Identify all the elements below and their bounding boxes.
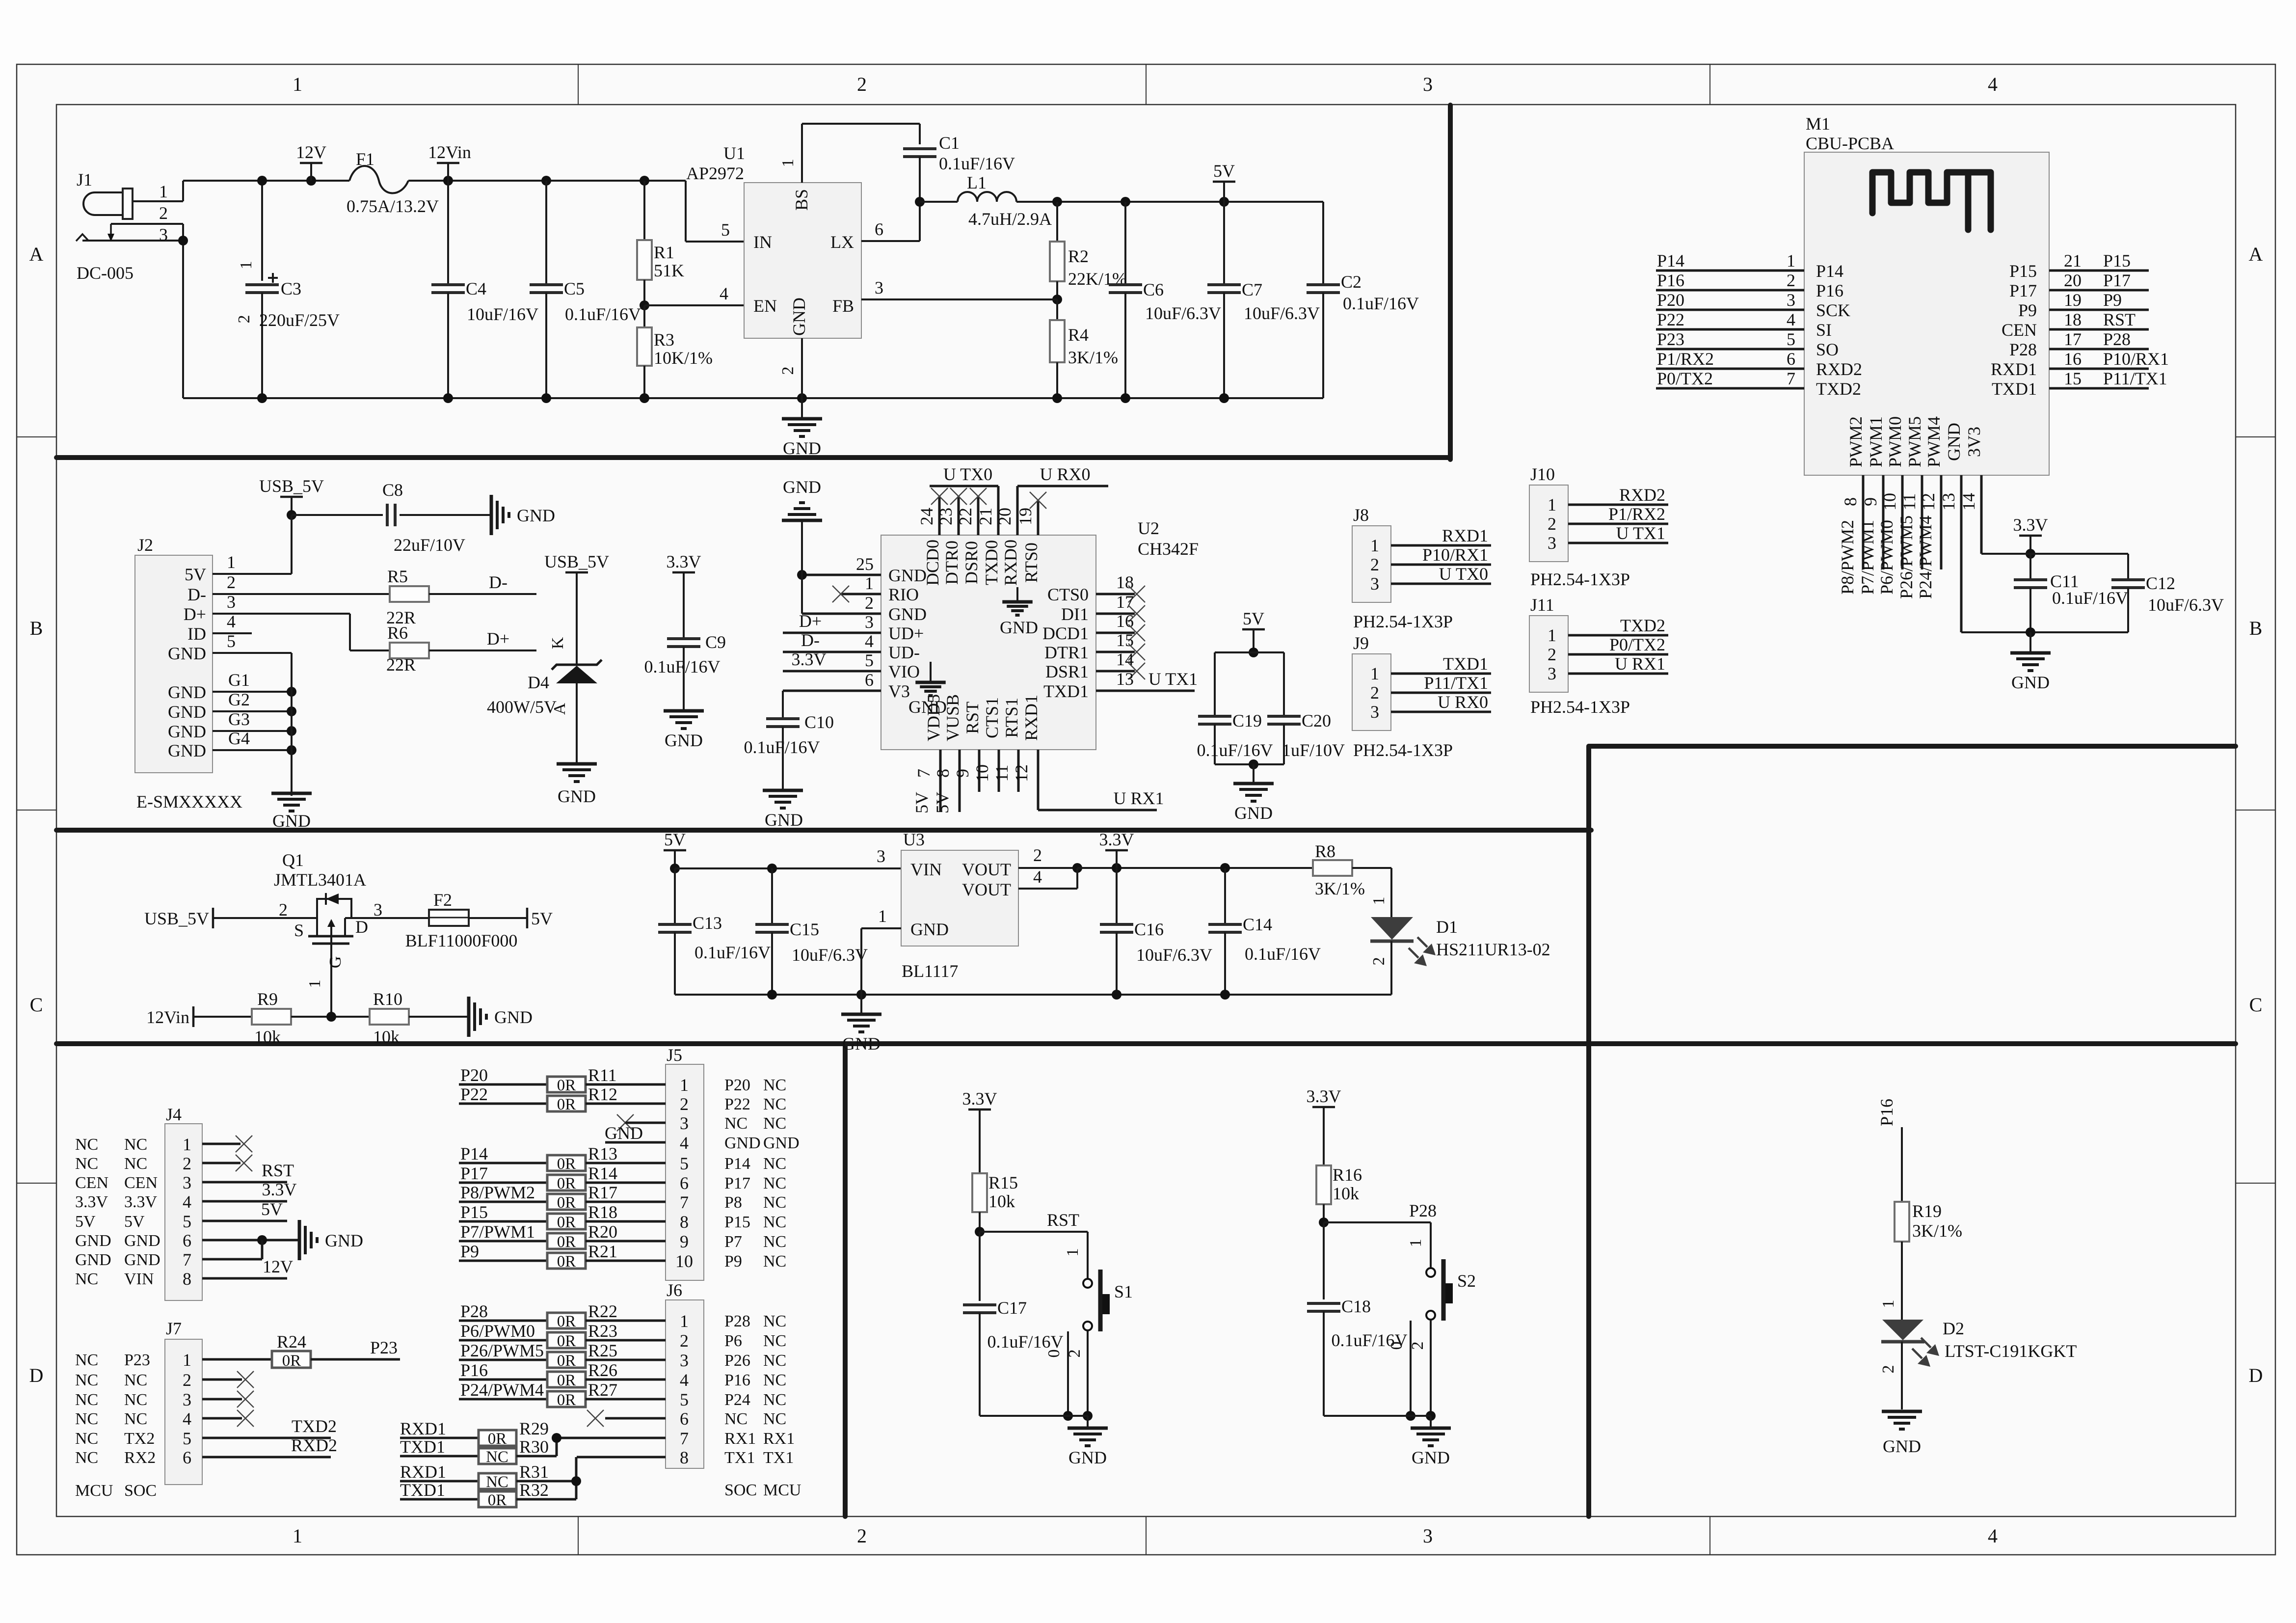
svg-text:A: A	[29, 243, 44, 265]
svg-text:R9: R9	[257, 989, 278, 1009]
svg-text:2: 2	[1370, 683, 1379, 703]
svg-text:D-: D-	[187, 585, 206, 604]
svg-text:GND: GND	[605, 1123, 643, 1143]
svg-text:10K/1%: 10K/1%	[654, 348, 713, 368]
svg-text:C3: C3	[281, 279, 301, 298]
svg-text:2: 2	[857, 1525, 867, 1547]
svg-text:5V: 5V	[912, 792, 932, 813]
svg-text:D-: D-	[801, 630, 820, 650]
svg-text:J2: J2	[137, 535, 153, 555]
svg-text:CEN: CEN	[75, 1174, 108, 1192]
svg-text:RXD2: RXD2	[1816, 359, 1862, 379]
svg-text:P1/RX2: P1/RX2	[1608, 504, 1665, 524]
svg-text:S1: S1	[1114, 1282, 1133, 1301]
svg-text:P6/PWM0: P6/PWM0	[460, 1321, 535, 1341]
svg-text:TXD2: TXD2	[292, 1416, 337, 1436]
svg-text:C: C	[2249, 994, 2263, 1016]
svg-text:3K/1%: 3K/1%	[1068, 348, 1118, 367]
svg-text:19: 19	[2064, 290, 2082, 310]
svg-text:P23: P23	[370, 1338, 398, 1357]
svg-text:NC: NC	[75, 1410, 98, 1428]
svg-text:NC: NC	[763, 1213, 786, 1231]
svg-text:20: 20	[995, 508, 1015, 525]
svg-text:DTR0: DTR0	[942, 541, 961, 585]
svg-text:P23: P23	[124, 1351, 150, 1369]
svg-text:C19: C19	[1232, 711, 1262, 730]
svg-text:3.3V: 3.3V	[262, 1180, 297, 1199]
svg-text:P16: P16	[1816, 281, 1843, 300]
svg-text:D1: D1	[1436, 917, 1458, 937]
svg-text:G: G	[326, 956, 345, 969]
svg-text:25: 25	[856, 554, 874, 574]
svg-text:22R: 22R	[386, 655, 416, 675]
svg-text:220uF/25V: 220uF/25V	[259, 310, 340, 330]
svg-text:CTS0: CTS0	[1047, 585, 1089, 604]
svg-text:R11: R11	[588, 1065, 617, 1085]
svg-text:VOUT: VOUT	[962, 860, 1011, 879]
svg-text:GND: GND	[1234, 803, 1273, 823]
svg-text:P11/TX1: P11/TX1	[1424, 673, 1488, 693]
svg-text:5: 5	[721, 220, 730, 240]
svg-text:G4: G4	[228, 729, 250, 748]
svg-text:VIN: VIN	[910, 860, 942, 879]
svg-text:UD+: UD+	[888, 623, 924, 643]
svg-text:R4: R4	[1068, 325, 1089, 345]
svg-text:51K: 51K	[654, 261, 684, 280]
svg-text:TX1: TX1	[763, 1449, 794, 1467]
svg-text:D4: D4	[528, 673, 549, 692]
svg-text:3V3: 3V3	[1964, 427, 1984, 457]
svg-text:U RX1: U RX1	[1615, 654, 1665, 674]
svg-text:2: 2	[183, 1154, 191, 1173]
svg-text:PWM1: PWM1	[1866, 416, 1886, 467]
svg-text:BL1117: BL1117	[902, 961, 958, 981]
svg-text:R15: R15	[988, 1173, 1018, 1192]
svg-text:2: 2	[183, 1370, 191, 1390]
svg-text:J11: J11	[1530, 595, 1554, 615]
svg-text:P24/PWM4: P24/PWM4	[1916, 515, 1935, 599]
svg-text:12Vin: 12Vin	[146, 1007, 189, 1027]
svg-text:7: 7	[183, 1250, 191, 1270]
svg-text:1: 1	[865, 573, 874, 593]
svg-text:R24: R24	[277, 1332, 306, 1352]
svg-text:3: 3	[374, 900, 382, 920]
svg-text:P20: P20	[724, 1076, 750, 1094]
svg-text:1: 1	[1407, 1239, 1425, 1247]
svg-text:RXD1: RXD1	[400, 1462, 446, 1482]
svg-text:1: 1	[183, 1350, 191, 1370]
svg-text:16: 16	[2064, 349, 2082, 369]
svg-text:NC: NC	[724, 1114, 748, 1133]
svg-text:C8: C8	[382, 480, 403, 500]
svg-text:20: 20	[2064, 270, 2082, 290]
svg-text:P22: P22	[724, 1095, 750, 1113]
svg-text:TXD2: TXD2	[1816, 379, 1861, 399]
svg-text:10k: 10k	[1333, 1184, 1359, 1203]
svg-text:GND: GND	[272, 811, 311, 831]
svg-text:0R: 0R	[557, 1214, 576, 1231]
svg-text:PH2.54-1X3P: PH2.54-1X3P	[1530, 697, 1630, 717]
svg-text:U TX0: U TX0	[943, 464, 992, 484]
svg-text:TXD1: TXD1	[1992, 379, 2037, 399]
svg-text:0R: 0R	[557, 1253, 576, 1271]
svg-text:0R: 0R	[557, 1233, 576, 1251]
svg-text:RX2: RX2	[124, 1449, 156, 1467]
svg-text:D: D	[355, 917, 368, 937]
svg-text:U RX0: U RX0	[1040, 464, 1090, 484]
svg-text:3: 3	[1370, 702, 1379, 722]
svg-text:U1: U1	[723, 143, 745, 163]
svg-text:P8/PWM2: P8/PWM2	[1838, 520, 1857, 595]
svg-text:10: 10	[972, 764, 992, 782]
svg-text:P17: P17	[2009, 281, 2037, 300]
svg-text:6: 6	[183, 1231, 191, 1250]
svg-text:10k: 10k	[373, 1027, 400, 1047]
svg-text:5: 5	[680, 1154, 689, 1173]
svg-text:2: 2	[1879, 1365, 1897, 1374]
svg-text:10uF/6.3V: 10uF/6.3V	[792, 945, 868, 965]
svg-text:2: 2	[680, 1094, 689, 1114]
svg-text:MCU: MCU	[763, 1481, 801, 1499]
svg-text:B: B	[2249, 617, 2263, 639]
svg-text:R13: R13	[588, 1144, 617, 1163]
svg-text:FB: FB	[832, 296, 854, 316]
svg-text:P28: P28	[2009, 340, 2037, 359]
svg-text:NC: NC	[75, 1351, 98, 1369]
svg-text:R23: R23	[588, 1321, 617, 1341]
svg-text:GND: GND	[325, 1231, 363, 1250]
svg-text:2: 2	[1066, 1350, 1084, 1358]
svg-text:8: 8	[680, 1212, 689, 1232]
svg-text:VIO: VIO	[888, 662, 920, 681]
svg-text:6: 6	[875, 219, 883, 239]
svg-text:1: 1	[293, 73, 302, 95]
svg-text:NC: NC	[763, 1371, 786, 1389]
svg-text:NC: NC	[75, 1270, 98, 1288]
svg-text:7: 7	[1787, 369, 1795, 388]
svg-text:TXD1: TXD1	[400, 1437, 445, 1457]
svg-text:U TX1: U TX1	[1148, 669, 1198, 689]
svg-text:D: D	[29, 1364, 44, 1386]
svg-text:1: 1	[1370, 897, 1388, 905]
svg-text:C17: C17	[997, 1298, 1027, 1318]
svg-text:P0/TX2: P0/TX2	[1609, 635, 1665, 654]
svg-text:8: 8	[933, 769, 953, 778]
svg-text:5: 5	[183, 1212, 191, 1231]
svg-text:C20: C20	[1302, 711, 1331, 730]
svg-text:P7: P7	[724, 1233, 742, 1251]
svg-text:P22: P22	[460, 1084, 488, 1104]
svg-text:3.3V: 3.3V	[1099, 830, 1134, 849]
svg-text:P1/RX2: P1/RX2	[1657, 349, 1714, 369]
svg-text:10k: 10k	[254, 1027, 281, 1047]
svg-text:PWM5: PWM5	[1905, 416, 1924, 467]
svg-text:NC: NC	[124, 1136, 147, 1154]
svg-text:R17: R17	[588, 1183, 617, 1202]
svg-text:0.1uF/16V: 0.1uF/16V	[1245, 944, 1321, 964]
svg-text:R14: R14	[588, 1163, 617, 1183]
svg-text:4: 4	[1033, 867, 1042, 887]
svg-text:R8: R8	[1315, 841, 1335, 861]
svg-text:3.3V: 3.3V	[667, 552, 701, 571]
svg-text:C10: C10	[804, 712, 834, 732]
svg-text:3: 3	[680, 1351, 689, 1370]
svg-text:R19: R19	[1912, 1201, 1942, 1221]
svg-text:R30: R30	[519, 1437, 549, 1457]
svg-text:2: 2	[779, 367, 797, 375]
svg-text:S2: S2	[1457, 1271, 1476, 1291]
svg-text:2: 2	[1033, 845, 1042, 865]
svg-text:GND: GND	[763, 1134, 800, 1152]
svg-text:5V: 5V	[75, 1213, 96, 1231]
svg-text:0R: 0R	[557, 1352, 576, 1370]
svg-text:8: 8	[680, 1448, 689, 1467]
svg-text:P7/PWM1: P7/PWM1	[460, 1222, 535, 1242]
svg-text:GND: GND	[494, 1007, 533, 1027]
svg-text:J4: J4	[166, 1105, 182, 1124]
svg-text:NC: NC	[124, 1155, 147, 1173]
svg-text:P24/PWM4: P24/PWM4	[460, 1380, 544, 1400]
svg-text:GND: GND	[2011, 673, 2050, 692]
svg-text:PWM4: PWM4	[1924, 416, 1944, 467]
svg-text:C15: C15	[790, 920, 819, 939]
svg-text:3: 3	[159, 225, 168, 244]
svg-text:P15: P15	[2103, 251, 2131, 270]
svg-text:P10/RX1: P10/RX1	[1422, 545, 1488, 565]
svg-text:6: 6	[183, 1448, 191, 1467]
svg-text:8: 8	[183, 1269, 191, 1289]
svg-text:2: 2	[279, 900, 288, 920]
svg-text:P20: P20	[460, 1065, 488, 1085]
svg-text:RST: RST	[962, 702, 982, 734]
svg-text:GND: GND	[517, 506, 555, 525]
svg-text:R27: R27	[588, 1380, 617, 1400]
svg-text:CEN: CEN	[124, 1174, 158, 1192]
svg-text:12Vin: 12Vin	[428, 142, 471, 162]
svg-text:C13: C13	[693, 913, 722, 933]
svg-text:PH2.54-1X3P: PH2.54-1X3P	[1353, 612, 1453, 631]
svg-text:U TX0: U TX0	[1439, 564, 1488, 584]
svg-text:C12: C12	[2146, 573, 2175, 593]
svg-text:5: 5	[183, 1429, 191, 1448]
svg-text:NC: NC	[75, 1449, 98, 1467]
svg-text:VUSB: VUSB	[943, 694, 962, 741]
svg-text:P10/RX1: P10/RX1	[2103, 349, 2169, 369]
svg-text:P7/PWM1: P7/PWM1	[1858, 520, 1877, 595]
svg-text:3.3V: 3.3V	[75, 1193, 108, 1211]
svg-text:RST: RST	[1047, 1210, 1079, 1230]
svg-text:1: 1	[1064, 1248, 1082, 1257]
svg-text:NC: NC	[763, 1114, 786, 1133]
svg-text:2: 2	[1548, 645, 1556, 664]
svg-text:C18: C18	[1341, 1297, 1371, 1316]
svg-text:3K/1%: 3K/1%	[1912, 1221, 1962, 1241]
svg-text:1: 1	[293, 1525, 302, 1547]
svg-text:22: 22	[956, 508, 975, 525]
svg-text:B: B	[30, 617, 43, 639]
svg-text:0R: 0R	[557, 1096, 576, 1113]
svg-text:P26/PWM5: P26/PWM5	[460, 1341, 544, 1360]
svg-text:P28: P28	[724, 1312, 750, 1330]
svg-text:R29: R29	[519, 1419, 549, 1438]
svg-text:P26/PWM5: P26/PWM5	[1896, 515, 1916, 599]
svg-text:NC: NC	[763, 1410, 786, 1428]
svg-text:RX1: RX1	[724, 1430, 756, 1448]
svg-text:7: 7	[680, 1192, 689, 1212]
svg-text:R6: R6	[387, 623, 408, 643]
svg-text:LX: LX	[830, 232, 854, 252]
svg-text:NC: NC	[763, 1352, 786, 1370]
svg-text:U TX1: U TX1	[1616, 523, 1665, 543]
svg-text:C1: C1	[939, 133, 960, 153]
svg-text:14: 14	[1959, 493, 1978, 511]
svg-text:P16: P16	[460, 1360, 488, 1380]
svg-text:RX1: RX1	[763, 1430, 795, 1448]
svg-text:24: 24	[917, 508, 936, 525]
svg-text:DTR1: DTR1	[1044, 643, 1089, 662]
svg-text:GND: GND	[724, 1134, 761, 1152]
svg-text:0.1uF/16V: 0.1uF/16V	[987, 1332, 1063, 1352]
svg-text:23: 23	[936, 508, 956, 525]
svg-text:P17: P17	[724, 1174, 750, 1192]
svg-text:IN: IN	[753, 232, 772, 252]
svg-text:CH342F: CH342F	[1138, 539, 1199, 559]
svg-text:NC: NC	[486, 1448, 508, 1466]
svg-text:R22: R22	[588, 1301, 617, 1321]
svg-text:3.3V: 3.3V	[1307, 1086, 1341, 1106]
svg-text:NC: NC	[763, 1174, 786, 1192]
svg-text:0.75A/13.2V: 0.75A/13.2V	[347, 196, 439, 216]
svg-text:C7: C7	[1242, 280, 1262, 299]
svg-text:PWM2: PWM2	[1846, 416, 1866, 467]
svg-text:9: 9	[680, 1232, 689, 1251]
svg-text:3: 3	[877, 846, 885, 866]
svg-text:D2: D2	[1943, 1319, 1964, 1338]
svg-text:P6/PWM0: P6/PWM0	[1877, 520, 1896, 595]
svg-text:1: 1	[680, 1311, 689, 1331]
svg-text:TXD1: TXD1	[400, 1480, 445, 1500]
svg-text:GND: GND	[1000, 618, 1038, 637]
svg-text:D-: D-	[489, 572, 507, 592]
svg-text:GND: GND	[168, 702, 206, 722]
svg-text:NC: NC	[124, 1391, 147, 1409]
svg-text:NC: NC	[75, 1391, 98, 1409]
svg-text:3: 3	[183, 1173, 191, 1192]
svg-text:RXD1: RXD1	[1021, 695, 1041, 741]
svg-text:0R: 0R	[557, 1313, 576, 1330]
svg-text:S: S	[294, 920, 304, 940]
svg-text:RXD1: RXD1	[1442, 526, 1488, 545]
svg-text:R5: R5	[387, 567, 408, 586]
svg-text:MCU: MCU	[75, 1482, 113, 1500]
svg-text:J9: J9	[1353, 633, 1369, 653]
svg-text:BS: BS	[792, 189, 811, 211]
svg-text:J7: J7	[166, 1319, 182, 1338]
svg-text:1: 1	[878, 906, 887, 926]
svg-text:1: 1	[306, 980, 324, 988]
svg-text:EN: EN	[753, 296, 777, 316]
svg-text:3: 3	[1423, 1525, 1433, 1547]
svg-text:HS211UR13-02: HS211UR13-02	[1436, 940, 1550, 959]
svg-text:NC: NC	[763, 1076, 786, 1094]
svg-text:NC: NC	[763, 1252, 786, 1271]
svg-text:11: 11	[992, 765, 1012, 782]
svg-text:0R: 0R	[557, 1077, 576, 1094]
svg-text:P0/TX2: P0/TX2	[1657, 369, 1713, 388]
svg-text:NC: NC	[724, 1410, 748, 1428]
svg-text:NC: NC	[763, 1095, 786, 1113]
svg-text:10uF/6.3V: 10uF/6.3V	[1145, 303, 1221, 323]
svg-text:5: 5	[1787, 329, 1795, 349]
svg-text:400W/5V: 400W/5V	[487, 697, 557, 717]
svg-text:GND: GND	[1068, 1448, 1107, 1467]
svg-text:RTS0: RTS0	[1021, 542, 1041, 583]
svg-text:7: 7	[680, 1429, 689, 1448]
svg-text:PH2.54-1X3P: PH2.54-1X3P	[1530, 569, 1630, 589]
svg-text:0R: 0R	[488, 1430, 507, 1448]
svg-text:10: 10	[1880, 493, 1899, 511]
svg-text:3K/1%: 3K/1%	[1315, 879, 1365, 898]
svg-text:LTST-C191KGKT: LTST-C191KGKT	[1945, 1341, 2077, 1361]
svg-text:P14: P14	[1816, 261, 1843, 281]
svg-text:DSR0: DSR0	[961, 541, 981, 584]
svg-text:USB_5V: USB_5V	[259, 476, 324, 496]
svg-text:U3: U3	[903, 830, 925, 849]
svg-text:GND: GND	[1412, 1448, 1450, 1467]
svg-text:0.1uF/16V: 0.1uF/16V	[1331, 1330, 1407, 1350]
svg-text:2: 2	[1370, 555, 1379, 574]
svg-text:6: 6	[680, 1409, 689, 1429]
svg-text:2: 2	[1548, 514, 1556, 534]
svg-text:NC: NC	[763, 1233, 786, 1251]
svg-text:V3: V3	[888, 681, 910, 701]
svg-text:P8/PWM2: P8/PWM2	[460, 1183, 535, 1202]
svg-text:4: 4	[1988, 73, 1998, 95]
svg-text:10uF/6.3V: 10uF/6.3V	[1244, 303, 1320, 323]
svg-text:G2: G2	[228, 690, 250, 709]
svg-text:PWM0: PWM0	[1885, 416, 1905, 467]
svg-text:GND: GND	[1883, 1436, 1921, 1456]
svg-text:GND: GND	[783, 438, 821, 458]
svg-text:0R: 0R	[557, 1155, 576, 1173]
svg-text:TXD1: TXD1	[1043, 681, 1089, 701]
svg-text:RTS1: RTS1	[1002, 698, 1021, 738]
svg-text:8: 8	[1841, 497, 1860, 506]
svg-text:R20: R20	[588, 1222, 617, 1242]
svg-text:GND: GND	[124, 1232, 160, 1250]
svg-text:P20: P20	[1657, 290, 1684, 310]
svg-text:D+: D+	[799, 611, 822, 631]
svg-text:GND: GND	[168, 741, 206, 760]
svg-text:J8: J8	[1353, 505, 1369, 525]
svg-text:4: 4	[183, 1192, 191, 1212]
svg-text:DI1: DI1	[1061, 604, 1089, 624]
svg-text:12V: 12V	[296, 142, 326, 162]
svg-text:R3: R3	[654, 330, 674, 350]
svg-text:1: 1	[1548, 495, 1556, 514]
svg-text:SO: SO	[1816, 340, 1839, 359]
svg-text:D+: D+	[184, 604, 206, 624]
svg-text:5V: 5V	[1243, 609, 1264, 628]
svg-text:GND: GND	[75, 1251, 111, 1269]
svg-text:3.3V: 3.3V	[2013, 515, 2048, 535]
svg-text:1: 1	[1370, 664, 1379, 683]
svg-text:2: 2	[227, 572, 236, 592]
svg-text:3.3V: 3.3V	[792, 649, 827, 669]
svg-text:DC-005: DC-005	[77, 263, 133, 283]
svg-text:L1: L1	[967, 173, 987, 192]
svg-text:C: C	[30, 994, 43, 1016]
